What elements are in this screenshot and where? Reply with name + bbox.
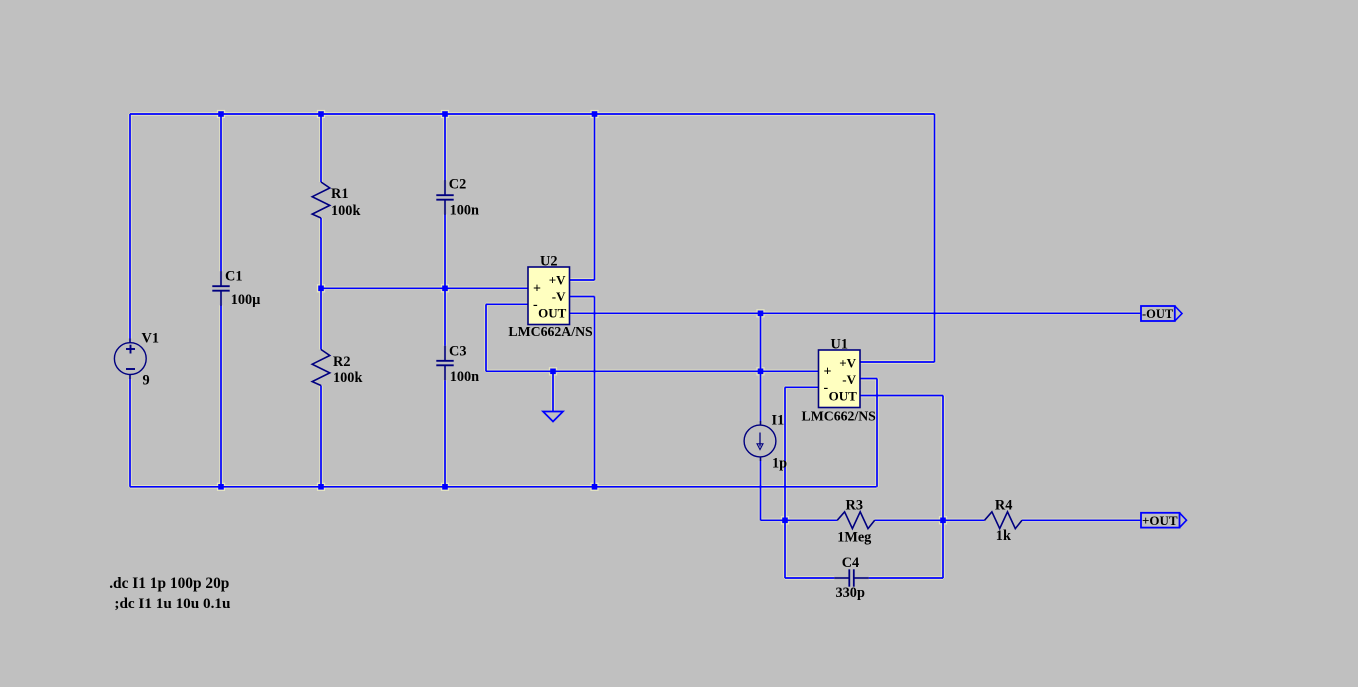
wire I1 to R3	[761, 519, 838, 521]
wire top supply rail	[130, 113, 935, 115]
junction top R1	[318, 111, 324, 117]
svg-text:330p: 330p	[836, 585, 865, 601]
wire ground stub	[552, 371, 554, 411]
svg-text:100n: 100n	[450, 202, 479, 218]
svg-text:.dc I1 1p 100p 20p: .dc I1 1p 100p 20p	[109, 575, 229, 592]
junction R3 left node	[782, 518, 788, 524]
wire I1 bottom branch	[760, 461, 762, 520]
svg-text:100n: 100n	[450, 369, 479, 385]
svg-text:I1: I1	[772, 413, 785, 429]
svg-text:1p: 1p	[772, 456, 787, 472]
junction bottom C1	[218, 484, 224, 490]
wire U2 +V stub	[570, 279, 595, 281]
wire R2 bottom	[320, 386, 322, 487]
svg-text:V1: V1	[142, 331, 159, 347]
svg-text:LMC662/NS: LMC662/NS	[802, 408, 877, 423]
svg-text:1k: 1k	[996, 528, 1011, 544]
capacitor C2	[436, 177, 479, 219]
svg-text:LMC662A/NS: LMC662A/NS	[508, 324, 593, 339]
junction top C1	[218, 111, 224, 117]
wire C2 bottom	[444, 214, 446, 288]
junction bottom C3	[442, 484, 448, 490]
svg-text:1Meg: 1Meg	[837, 529, 872, 545]
wire left rail upper	[129, 114, 131, 339]
wire U1 +V stub	[860, 361, 935, 363]
wire U2 inverting feedback drop	[485, 304, 487, 371]
wire U1 inverting input stub	[785, 386, 819, 388]
ground	[543, 412, 563, 422]
wire I1 top branch	[760, 313, 762, 421]
wire U2 inverting input	[486, 303, 528, 305]
wire C1 top	[220, 114, 222, 271]
junction top C2	[442, 111, 448, 117]
wire U2 output to -OUT	[570, 312, 1142, 314]
wire U2 -V stub	[570, 296, 595, 298]
op-amp U1	[802, 337, 877, 424]
svg-text:+OUT: +OUT	[1142, 513, 1178, 528]
svg-text:;dc I1 1u 10u 0.1u: ;dc I1 1u 10u 0.1u	[114, 595, 231, 612]
wire C3 bottom	[444, 380, 446, 487]
svg-text:U2: U2	[540, 254, 557, 270]
current source I1	[744, 413, 787, 472]
svg-text:C2: C2	[449, 177, 466, 193]
wire +V riser	[594, 114, 596, 280]
junction bottom -V	[592, 484, 598, 490]
wire R4 to +OUT	[1022, 519, 1141, 521]
svg-text:OUT: OUT	[538, 305, 567, 320]
wire U1 -V drop	[876, 379, 878, 487]
svg-text:-V: -V	[552, 289, 566, 304]
wire U1 out vertical	[942, 396, 944, 579]
wire R1 top	[320, 114, 322, 182]
wire U2 noninverting input	[321, 287, 528, 289]
wire C3 top	[444, 288, 446, 345]
capacitor C1	[212, 268, 260, 308]
resistor R1	[312, 182, 360, 219]
wire U1 +V riser	[934, 114, 936, 362]
svg-text:+: +	[533, 282, 541, 297]
svg-text:R3: R3	[846, 498, 863, 514]
capacitor C3	[436, 343, 479, 385]
junction top +V riser	[592, 111, 598, 117]
wire U1 -V stub	[860, 378, 877, 380]
svg-text:+V: +V	[549, 272, 566, 287]
wire C2 top	[444, 114, 446, 180]
svg-text:100µ: 100µ	[231, 292, 261, 308]
junction R3 R4 node	[940, 518, 946, 524]
voltage source V1	[114, 331, 159, 389]
wire -V dropper	[594, 297, 596, 487]
svg-text:OUT: OUT	[829, 388, 858, 403]
capacitor C4	[834, 555, 869, 601]
wire U1 inv node vertical	[784, 387, 786, 578]
wire R1 bottom	[320, 218, 322, 288]
svg-text:R2: R2	[333, 354, 350, 370]
junction I1 ground net	[758, 369, 764, 375]
wire bottom rail	[130, 486, 877, 488]
svg-text:9: 9	[143, 373, 150, 389]
junction U2 out I1	[758, 311, 764, 317]
wire R2 top	[320, 288, 322, 349]
port -OUT	[1141, 306, 1182, 321]
svg-text:U1: U1	[831, 337, 848, 353]
op-amp U2	[508, 254, 593, 340]
wire C1 bottom	[220, 305, 222, 487]
junction ground	[550, 369, 556, 375]
junction bottom R2	[318, 484, 324, 490]
wire R3 to R4	[875, 519, 985, 521]
junction divider mid	[318, 286, 324, 292]
svg-text:C4: C4	[842, 555, 859, 571]
resistor R3	[837, 498, 875, 546]
svg-text:C3: C3	[449, 343, 466, 359]
wire to C4 left	[785, 577, 834, 579]
port +OUT	[1141, 513, 1187, 528]
svg-text:-V: -V	[842, 372, 856, 387]
wire U1 output	[860, 395, 943, 397]
svg-text:+: +	[824, 365, 832, 380]
svg-text:R1: R1	[331, 186, 348, 202]
resistor R2	[312, 350, 362, 387]
wire ground net to U1 +	[486, 370, 819, 372]
resistor R4	[985, 498, 1023, 545]
svg-text:C1: C1	[225, 268, 242, 284]
junction C2 C3	[442, 286, 448, 292]
svg-text:R4: R4	[995, 498, 1012, 514]
svg-text:+V: +V	[839, 355, 856, 370]
wire C4 right	[869, 577, 943, 579]
svg-text:100k: 100k	[331, 203, 360, 219]
svg-text:100k: 100k	[333, 370, 362, 386]
svg-text:-OUT: -OUT	[1142, 307, 1174, 321]
wire left rail lower	[129, 379, 131, 487]
